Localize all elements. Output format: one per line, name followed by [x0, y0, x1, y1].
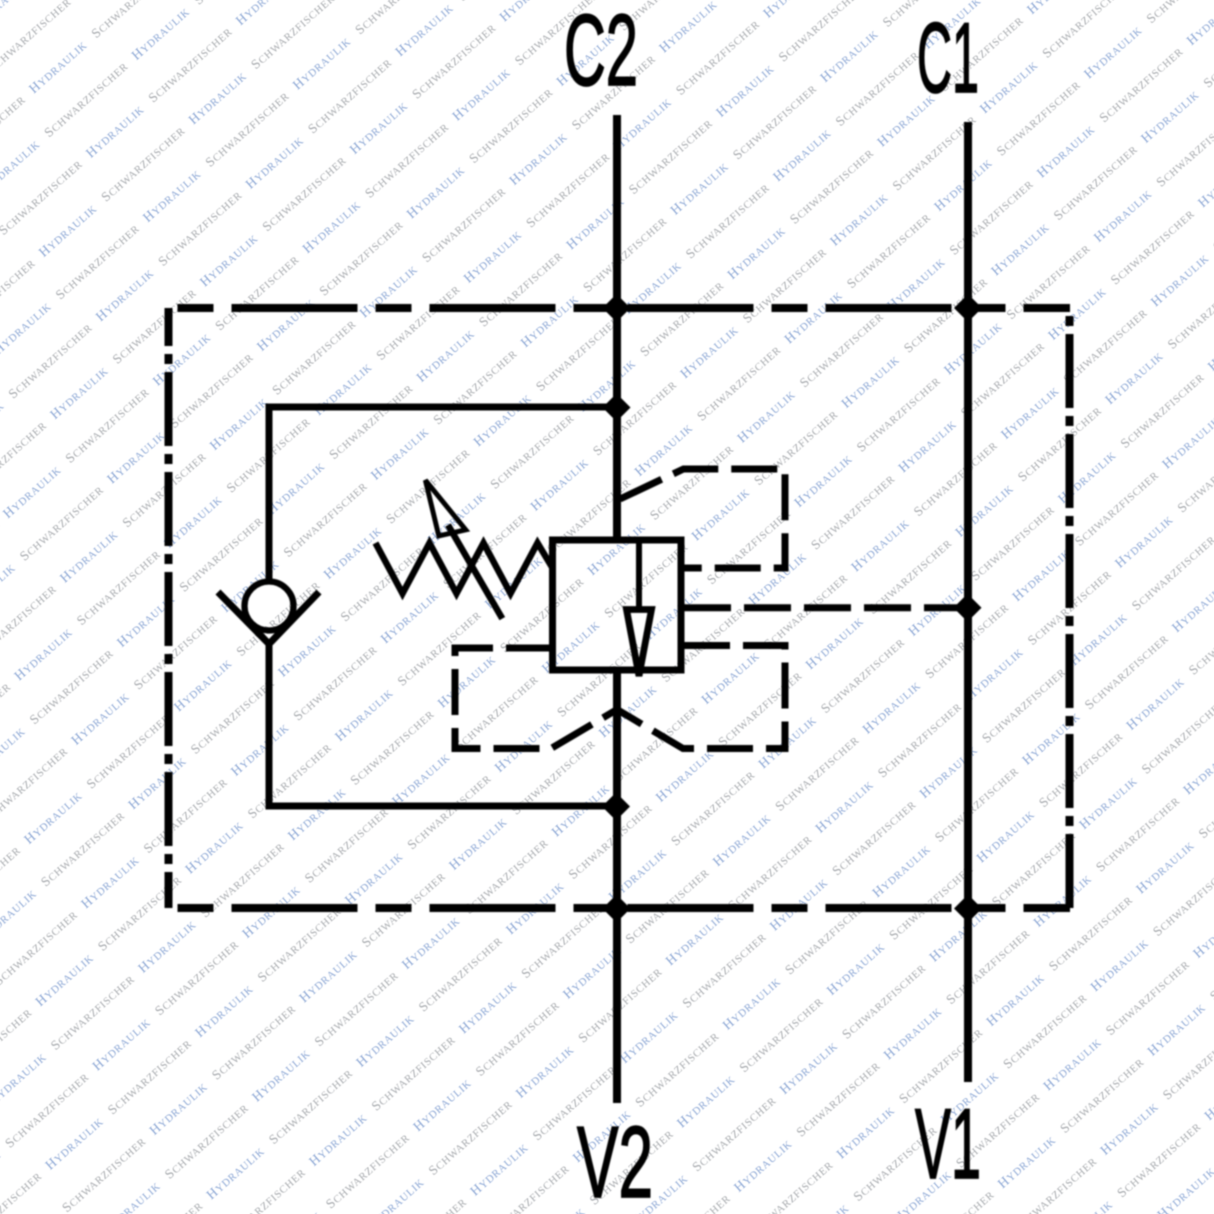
wire C2 lower — [613, 670, 621, 1103]
valve body boundary bottom — [169, 904, 1071, 912]
check valve ball — [245, 582, 294, 631]
valve body boundary left — [165, 308, 173, 908]
wire C1 — [964, 122, 972, 1082]
junction check branch bottom — [602, 793, 630, 821]
svg-text:C2: C2 — [564, 0, 638, 107]
wire check valve branch bottom — [269, 803, 617, 810]
wire C2 upper — [613, 115, 621, 540]
svg-text:V2: V2 — [577, 1107, 653, 1214]
junction C1 bottom border — [954, 895, 982, 923]
relief valve flow arrowhead — [627, 610, 652, 677]
junction C2 top border — [603, 294, 631, 322]
svg-text:V1: V1 — [915, 1088, 981, 1199]
pilot line bottom right loop — [617, 646, 785, 749]
svg-text:C1: C1 — [917, 2, 979, 113]
pilot line top loop — [620, 469, 785, 568]
pilot line to C1 — [684, 604, 968, 611]
pilot line bottom left loop — [455, 648, 617, 749]
wire check valve branch upper vertical — [266, 404, 273, 582]
check valve seat — [218, 592, 319, 644]
junction pilot C1 — [954, 594, 982, 622]
junction C2 bottom border — [603, 895, 631, 923]
relief valve flow line — [636, 540, 642, 610]
junction C1 top border — [954, 294, 982, 322]
adjustment arrow shaft — [448, 525, 502, 619]
valve body boundary top — [169, 304, 1071, 312]
spring — [376, 543, 553, 594]
junction check branch top — [603, 394, 631, 422]
relief valve RV1 body — [553, 540, 682, 670]
adjustment arrow head — [425, 480, 465, 536]
valve body boundary right — [1066, 308, 1074, 908]
wire check valve branch top — [269, 404, 617, 411]
wire check valve branch lower vertical — [266, 644, 273, 810]
